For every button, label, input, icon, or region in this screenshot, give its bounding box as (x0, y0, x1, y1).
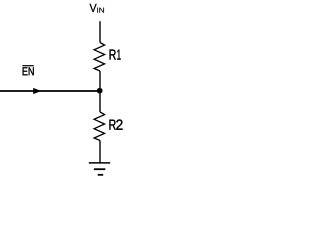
label EN (active low, overbar) (22, 65, 33, 75)
label R2 (109, 120, 122, 130)
resistor R2 (94, 112, 105, 141)
label R1 (110, 50, 121, 60)
arrowhead on EN wire (33, 88, 41, 94)
resistor R1 (94, 43, 105, 72)
wire R2 to ground (99, 141, 101, 163)
wire R1 to node (99, 71, 101, 91)
ground (89, 163, 110, 175)
wire VIN to R1 (99, 21, 101, 42)
node junction dot (97, 88, 103, 94)
wire EN input (0, 90, 100, 92)
node VIN label (90, 4, 104, 13)
wire node to R2 (99, 91, 101, 112)
